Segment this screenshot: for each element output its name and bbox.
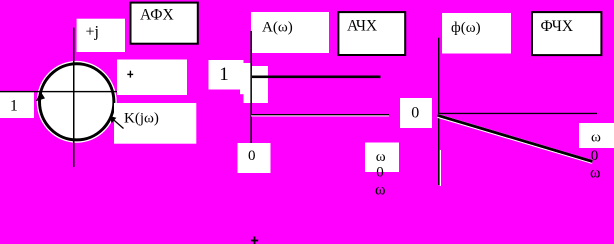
w axis (middle plot) <box>251 114 389 115</box>
svg-text:ф(ω): ф(ω) <box>451 20 481 36</box>
svg-text:АФХ: АФХ <box>140 7 174 24</box>
label box 0 (right) <box>400 98 432 128</box>
svg-text:0: 0 <box>376 164 384 180</box>
arrow on circle (down-left) <box>36 91 45 101</box>
svg-text:0: 0 <box>591 148 599 164</box>
title box АЧХ <box>338 12 405 55</box>
svg-text:+j: +j <box>86 24 99 41</box>
white tab right of middle axis <box>244 66 269 103</box>
callout arrowhead <box>110 116 117 123</box>
title box ФЧХ <box>532 12 601 55</box>
label box K(jw) <box>114 103 196 144</box>
label box A(w) <box>251 12 329 53</box>
label box 0 (middle) <box>238 143 271 173</box>
phi(w) curve white halo <box>438 116 593 162</box>
label box w (middle) <box>365 143 399 173</box>
imaginary axis (left plot) <box>73 28 75 168</box>
white patch under 1 box <box>240 63 251 94</box>
svg-text:ω: ω <box>375 182 386 199</box>
white fringe right of phi axis <box>440 150 441 186</box>
circle K(jw) hodograph <box>39 64 113 140</box>
plus mark bottom center <box>254 237 256 244</box>
svg-text:1: 1 <box>219 64 229 85</box>
svg-text:ω: ω <box>591 129 601 145</box>
svg-text:A(ω): A(ω) <box>262 20 293 36</box>
label box ф(w) <box>442 13 511 54</box>
A(w) axis vertical (middle plot) <box>250 31 252 143</box>
svg-text:ФЧХ: ФЧХ <box>541 18 574 35</box>
svg-text:1: 1 <box>10 98 18 115</box>
w axis (right plot) <box>439 113 597 114</box>
svg-text:АЧХ: АЧХ <box>347 18 377 35</box>
A(w) curve thick horizontal <box>252 76 381 79</box>
text + (drawn cross) <box>127 74 133 75</box>
real axis (left plot) <box>0 91 117 92</box>
label box 1 (left axis) <box>0 92 34 118</box>
svg-text:ω: ω <box>376 149 386 165</box>
svg-text:K(jω): K(jω) <box>124 111 159 127</box>
circle white halo <box>39 64 113 140</box>
label box w (right) <box>579 123 614 148</box>
phi axis vertical (right plot) <box>438 38 439 185</box>
callout line to K(jw) <box>112 118 124 129</box>
label box +j <box>77 19 125 52</box>
label box + <box>117 60 187 96</box>
svg-text:0: 0 <box>411 105 419 122</box>
white fringe under w axis (middle) <box>251 115 389 116</box>
phi(w) curve descending <box>438 115 593 161</box>
svg-text:ω: ω <box>590 164 601 181</box>
title box АФХ <box>131 3 198 44</box>
label box 1 (middle) <box>209 60 244 90</box>
svg-text:0: 0 <box>248 148 256 164</box>
